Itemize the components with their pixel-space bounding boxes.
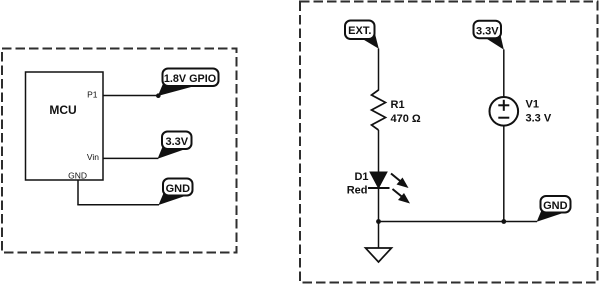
right schematic dashed frame [300,2,598,283]
svg-text:3.3 V: 3.3 V [526,113,552,125]
wire V1 to ground net [503,126,505,222]
svg-text:Red: Red [347,185,368,197]
ground symbol [366,248,392,262]
resistor R1 [372,90,386,130]
net flag GND (left) [159,179,193,206]
svg-text:R1: R1 [391,99,405,111]
svg-text:470 Ω: 470 Ω [391,113,421,125]
LED light arrow 2 [393,189,411,204]
LED cathode bar [368,187,390,189]
wire P1 to 1.8V GPIO flag [103,95,158,97]
svg-text:MCU: MCU [49,103,76,117]
svg-text:D1: D1 [354,171,368,183]
wire GND horizontal [77,204,159,206]
svg-text:3.3V: 3.3V [476,26,499,38]
net flag 1.8V GPIO [156,69,219,98]
svg-text:EXT.: EXT. [348,25,371,37]
svg-text:GND: GND [68,171,87,181]
svg-text:V1: V1 [526,99,539,111]
LED D1 triangle [370,172,387,188]
junction node at LED/ground [376,219,381,224]
net flag EXT. [345,21,379,49]
svg-text:3.3V: 3.3V [165,136,188,148]
left schematic dashed frame [2,49,237,253]
junction node at V1/ground net [501,219,506,224]
MCU box [26,72,104,180]
svg-text:GND: GND [543,200,568,212]
net flag GND (right) [537,196,571,222]
wire LED to node [378,188,380,248]
wire EXT to resistor [378,49,380,91]
voltage source V1 [490,97,519,126]
wire 3.3V flag to V1 [503,49,505,97]
net flag 3.3V (right) [474,21,504,50]
net flag 3.3V (left) [158,132,192,159]
svg-text:P1: P1 [87,90,98,100]
svg-text:GND: GND [166,183,191,195]
svg-text:1.8V GPIO: 1.8V GPIO [164,73,216,85]
horizontal ground net wire [379,221,538,223]
wire Vin to 3.3V flag [103,157,158,159]
wire GND pin down [77,180,79,205]
svg-text:Vin: Vin [87,152,99,162]
wire resistor to LED [378,130,380,173]
LED light arrow 1 [391,174,409,189]
